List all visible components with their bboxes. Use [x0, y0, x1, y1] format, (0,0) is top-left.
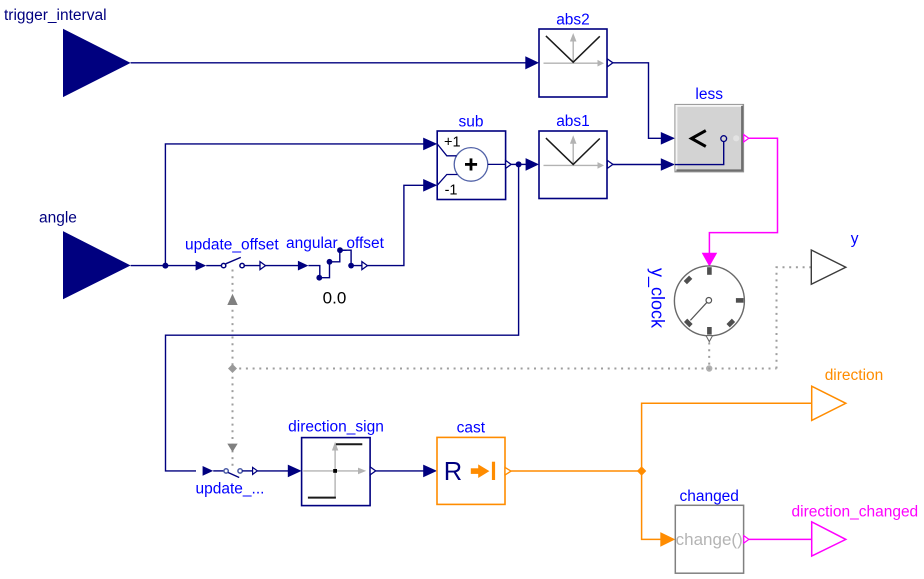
clock y_clock: [647, 266, 745, 342]
wire cast to junction (orange): [511, 470, 641, 472]
svg-text:sub: sub: [459, 113, 484, 130]
cast input arrow: [423, 465, 437, 478]
svg-text:update_offset: update_offset: [185, 236, 279, 253]
less input2 arrow: [661, 158, 675, 171]
clock input arrow (magenta): [702, 253, 718, 267]
junction sub output: [516, 161, 522, 167]
wire abs1 to less input2: [613, 164, 662, 166]
svg-text:-1: -1: [445, 183, 458, 199]
block sub: [437, 113, 511, 199]
wire switch1 to angular_offset: [266, 265, 299, 267]
gray arrow down to switch2: [227, 444, 237, 452]
svg-text:angular_offset: angular_offset: [286, 235, 385, 252]
svg-text:cast: cast: [457, 420, 486, 437]
dotted wire bus to y output: [777, 267, 812, 368]
svg-text:y_clock: y_clock: [647, 268, 668, 329]
switch update_...: [196, 467, 265, 497]
input connector angle: [39, 210, 131, 300]
wire angle to switch1: [131, 265, 196, 267]
svg-text:+1: +1: [444, 134, 461, 150]
output connector direction_changed: [792, 503, 919, 556]
sample-hold angular_offset: [286, 235, 385, 307]
wire junction down to changed (orange): [642, 471, 661, 539]
block abs2: [539, 12, 613, 97]
wire abs2 to less input1: [613, 63, 662, 139]
svg-text:y: y: [851, 231, 859, 248]
svg-text:direction: direction: [825, 367, 884, 384]
svg-text:change(): change(): [676, 530, 743, 549]
direction_sign input arrow: [288, 465, 302, 478]
wire switch2 to direction_sign: [257, 470, 288, 472]
less input1 arrow: [661, 132, 675, 145]
sub input1 arrow: [423, 138, 437, 151]
wire sub to abs1: [511, 163, 526, 165]
svg-text:less: less: [695, 86, 723, 103]
block less: [675, 86, 749, 172]
output connector direction: [812, 367, 884, 421]
input connector trigger_interval: [4, 7, 131, 97]
dotted junction diamond: [228, 364, 237, 373]
wire changed to direction_changed (magenta): [749, 538, 812, 540]
sub input2 arrow: [423, 179, 437, 192]
switch2 input arrow: [203, 466, 214, 476]
angular_offset input arrow: [298, 261, 309, 271]
svg-text:abs2: abs2: [556, 12, 590, 29]
wire junction up to direction output (orange): [642, 403, 812, 471]
svg-text:update_...: update_...: [196, 481, 265, 498]
block direction_sign: [288, 418, 384, 505]
dotted junction at clock bus: [706, 365, 712, 371]
block cast: [437, 420, 511, 505]
junction angle: [162, 263, 168, 269]
svg-text:angle: angle: [39, 210, 77, 227]
switch update_offset: [185, 236, 279, 269]
wire sub output down to switch2: [166, 164, 519, 471]
dotted wire bus to switches: [232, 270, 234, 471]
switch1 input arrow: [196, 261, 207, 271]
changed input arrow (orange): [660, 532, 675, 547]
wire angle junction up to sub plus input: [165, 144, 424, 266]
block changed: [675, 488, 749, 573]
dotted wire clock bottom to bus: [708, 343, 710, 369]
abs1 input arrow: [526, 158, 539, 171]
wire angular_offset to sub minus input: [367, 185, 424, 265]
junction diamond orange: [637, 466, 646, 476]
svg-text:trigger_interval: trigger_interval: [4, 7, 107, 24]
svg-text:abs1: abs1: [556, 113, 590, 130]
svg-text:0.0: 0.0: [323, 288, 347, 307]
svg-text:changed: changed: [679, 488, 738, 505]
wire direction_sign to cast: [376, 470, 424, 472]
svg-text:R: R: [444, 458, 462, 486]
dotted wire horizontal bus: [233, 368, 777, 370]
output connector y: [811, 231, 859, 285]
abs2 input arrow: [525, 56, 539, 69]
svg-text:direction_changed: direction_changed: [792, 503, 919, 520]
block abs1: [539, 113, 613, 198]
gray arrow up to switch1: [227, 294, 237, 305]
wire trigger_interval to abs2: [131, 62, 526, 64]
svg-text:direction_sign: direction_sign: [288, 418, 384, 435]
wire less output to clock (magenta): [709, 138, 777, 254]
